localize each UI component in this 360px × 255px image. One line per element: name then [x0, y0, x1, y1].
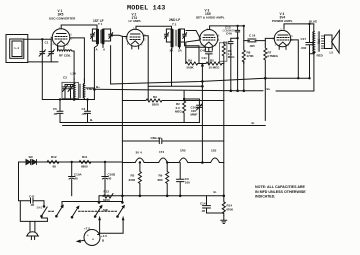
- svg-text:2A: 2A: [178, 49, 183, 53]
- svg-text:68: 68: [53, 165, 57, 169]
- T1 bottom pins: [102, 44, 104, 48]
- svg-text:MMF: MMF: [191, 113, 198, 117]
- svg-text:MEG: MEG: [175, 110, 183, 114]
- svg-text:7: 7: [67, 45, 69, 47]
- svg-text:C4A: C4A: [226, 32, 233, 36]
- switch pole SW1c: [71, 206, 79, 218]
- wire V2 grid return: [121, 37, 123, 196]
- svg-text:MODEL 143: MODEL 143: [127, 5, 166, 13]
- filament bus with humps: [122, 149, 223, 163]
- svg-text:DET & AUDIO AMPL: DET & AUDIO AMPL: [196, 16, 225, 20]
- svg-text:C4: C4: [82, 107, 86, 111]
- wire V3 cathode to pot left: [186, 46, 206, 48]
- svg-text:SR: SR: [29, 155, 34, 159]
- svg-text:+7.5: +7.5: [84, 226, 90, 230]
- svg-text:1R5: 1R5: [180, 149, 186, 153]
- svg-text:1: 1: [127, 44, 129, 46]
- svg-text:.05: .05: [201, 209, 206, 213]
- 2nd IF transformer T2: [165, 18, 187, 53]
- wire V3 plate top: [210, 25, 244, 27]
- top bus line: [111, 78, 310, 84]
- svg-text:R3: R3: [153, 95, 157, 99]
- svg-text:6: 6: [70, 35, 72, 37]
- V4 cathode wire right: [291, 40, 299, 78]
- svg-text:5: 5: [218, 40, 220, 42]
- switch pole SW1d: [94, 196, 102, 218]
- svg-text:RED: RED: [317, 54, 324, 58]
- svg-text:R13: R13: [104, 190, 110, 194]
- wire V1 osc grid: [73, 38, 84, 82]
- oscillator coil L3B: [83, 79, 93, 100]
- capacitor C15: [224, 38, 234, 91]
- trimmer cap C3: [63, 85, 75, 99]
- svg-text:.05: .05: [53, 112, 58, 116]
- svg-text:C 16: C 16: [249, 34, 256, 38]
- svg-text:C5: C5: [53, 107, 57, 111]
- svg-text:.05: .05: [82, 112, 87, 116]
- svg-text:100: 100: [185, 181, 190, 185]
- svg-text:40: 40: [75, 177, 79, 181]
- svg-text:OSC-CONVERTER: OSC-CONVERTER: [49, 16, 76, 20]
- volume pot R4 500K: [186, 59, 198, 70]
- svg-text:C-D: C-D: [29, 195, 35, 199]
- svg-text:1T4: 1T4: [159, 150, 165, 154]
- tube V2 1T4 IF ampl: [125, 12, 146, 49]
- wire T1 primary bottom to B+: [94, 44, 97, 100]
- cap C14 .05: [200, 196, 224, 213]
- output transformer T3: [313, 24, 325, 58]
- bus line 2: [148, 85, 202, 87]
- svg-text:+1.5: +1.5: [101, 234, 107, 238]
- battery B1: [77, 218, 124, 246]
- wiper wire down with arrow: [201, 66, 203, 163]
- mechanical link dashed: [49, 210, 56, 212]
- svg-text:C11: C11: [202, 56, 208, 60]
- wire V2 plate to T2: [136, 26, 172, 29]
- svg-text:IN MFD UNLESS OTHERWISE: IN MFD UNLESS OTHERWISE: [255, 190, 306, 194]
- wire detector node: [231, 38, 239, 91]
- svg-text:B-: B-: [252, 121, 255, 125]
- T1 trimmer left: [91, 29, 98, 41]
- svg-text:A: A: [103, 48, 106, 52]
- svg-text:T 2: T 2: [172, 23, 177, 27]
- tube V3 1S5 det audio: [196, 9, 225, 51]
- svg-text:INDICATED.: INDICATED.: [255, 195, 275, 199]
- svg-text:R5: R5: [131, 174, 135, 178]
- svg-text:SW1: SW1: [37, 205, 43, 209]
- wire plate node down: [243, 25, 244, 91]
- svg-text:C1: C1: [45, 41, 49, 45]
- line cord cap C-D .05: [19, 162, 45, 207]
- svg-text:L3A: L3A: [71, 71, 78, 75]
- svg-text:T 1: T 1: [98, 22, 103, 26]
- cap C16 coupling: [244, 34, 265, 48]
- svg-text:L5: L5: [330, 51, 334, 55]
- wire common bottom: [28, 61, 58, 63]
- svg-text:6800: 6800: [81, 165, 88, 169]
- svg-text:A: A: [96, 48, 99, 52]
- svg-text:5: 5: [144, 39, 146, 41]
- svg-text:L3B: L3B: [87, 87, 94, 91]
- note text: [255, 185, 306, 199]
- wire T2 to V3 grid: [186, 31, 201, 40]
- resistor R9 680: [158, 162, 169, 196]
- svg-text:6: 6: [218, 36, 220, 38]
- long vertical from pot right: [223, 64, 225, 196]
- svg-text:R9: R9: [159, 174, 163, 178]
- svg-text:R4: R4: [188, 59, 192, 63]
- resistor R13 6200: [103, 190, 113, 203]
- resistor R5 3300: [129, 162, 142, 196]
- switch pole SW1a: [37, 201, 48, 222]
- capacitor C9 100: [177, 163, 191, 196]
- wire loop to tuning cap: [24, 38, 51, 40]
- svg-text:.05: .05: [30, 203, 35, 207]
- switch pole SW1e: [117, 196, 125, 218]
- wire V4 plate to output transformer, BLUE: [284, 23, 314, 25]
- svg-text:B: B: [102, 239, 105, 243]
- V4 grid wire: [265, 38, 274, 44]
- svg-text:R11: R11: [82, 155, 88, 159]
- svg-text:10 MEG: 10 MEG: [209, 66, 221, 70]
- svg-text:PRI: PRI: [317, 39, 321, 44]
- resistor R7 4.7MEG: [264, 44, 279, 121]
- svg-text:I-F AMPL: I-F AMPL: [129, 19, 142, 23]
- svg-text:B+: B+: [267, 87, 271, 91]
- wire rf coil to osc coil: [72, 51, 74, 80]
- svg-text:BLUE: BLUE: [309, 20, 317, 24]
- T1 trimmer right: [103, 29, 113, 41]
- svg-text:500K: 500K: [187, 66, 195, 70]
- wire T2 sec bottom to AVC: [185, 42, 200, 64]
- resistor R8 470K: [242, 48, 254, 64]
- svg-text:2ND I-F: 2ND I-F: [169, 18, 180, 22]
- svg-text:R5: R5: [210, 59, 214, 63]
- svg-text:470K: 470K: [226, 208, 234, 212]
- wire L3B to B+ feed: [86, 87, 95, 89]
- svg-text:8200: 8200: [152, 103, 159, 107]
- wire T2 pri bottom to B+: [171, 49, 173, 87]
- svg-text:4.7MEG: 4.7MEG: [267, 54, 279, 58]
- cap C4: [82, 99, 94, 123]
- svg-text:C3: C3: [63, 75, 67, 79]
- resistor R11 6800: [79, 155, 91, 169]
- cap C13: [223, 25, 240, 38]
- R3 8200 screen feed: [122, 95, 224, 107]
- AC plug: [20, 201, 47, 240]
- cap C6B-40 on line: [122, 136, 223, 144]
- SR rectifier line: [19, 161, 123, 163]
- svg-text:680: 680: [158, 178, 163, 182]
- speaker L5: [325, 30, 340, 54]
- svg-text:5: 5: [70, 39, 72, 41]
- lower bus lines: [60, 122, 200, 124]
- wire T1 sec to V2 grid: [111, 35, 127, 36]
- svg-text:.005: .005: [249, 44, 255, 48]
- svg-text:C6B-40: C6B-40: [151, 136, 162, 140]
- svg-text:+: +: [87, 233, 89, 237]
- wire V2 screen down: [143, 36, 148, 101]
- common line osc: [42, 62, 94, 100]
- L3 core: [79, 84, 80, 98]
- RF coil under V1: [58, 45, 72, 58]
- resistor R12 68: [47, 155, 59, 169]
- svg-text:B+: B+: [96, 85, 100, 89]
- SR selenium rectifier: [26, 155, 37, 165]
- svg-text:B-: B-: [214, 190, 217, 194]
- oscillator coil L3A: [63, 71, 77, 99]
- svg-text:1: 1: [52, 44, 54, 46]
- T2 trimmer right: [179, 29, 186, 42]
- oscillator coil L3 shield box: [62, 82, 78, 98]
- svg-text:7: 7: [215, 46, 217, 48]
- bottom bus: [99, 195, 224, 197]
- cap C5: [53, 99, 63, 123]
- svg-text:MEG: MEG: [228, 55, 236, 59]
- capacitor C4B / C11 under V3: [200, 48, 212, 64]
- svg-text:B-: B-: [90, 118, 93, 122]
- 1st IF transformer T1: [91, 19, 113, 52]
- resistor R5 10 MEG: [206, 59, 222, 70]
- resistor R6 1.5 MEG: [219, 42, 235, 64]
- svg-text:POWER AMPL: POWER AMPL: [272, 19, 293, 23]
- svg-text:C17: C17: [301, 37, 307, 41]
- svg-text:7: 7: [141, 45, 143, 47]
- svg-text:7: 7: [288, 45, 290, 47]
- svg-text:.002: .002: [301, 46, 307, 50]
- svg-text:1S5: 1S5: [211, 149, 217, 153]
- svg-text:3300: 3300: [129, 178, 136, 182]
- tuning capacitor C2: [48, 39, 54, 62]
- wire pot line: [186, 40, 200, 64]
- B+ vertical from RED: [313, 53, 315, 92]
- switch pole SW1b: [56, 202, 123, 218]
- svg-text:6: 6: [291, 36, 293, 38]
- svg-text:NOTE: ALL CAPACITIES ARE: NOTE: ALL CAPACITIES ARE: [255, 185, 306, 189]
- tube V4 3V4 power ampl: [272, 12, 293, 50]
- loop antenna L1: [6, 35, 28, 63]
- svg-text:o: o: [92, 237, 94, 241]
- svg-text:L-1: L-1: [15, 46, 20, 50]
- cap C17 .002: [298, 24, 314, 79]
- tuning capacitor C1: [39, 39, 49, 62]
- svg-text:R12: R12: [51, 155, 57, 159]
- ground: [221, 216, 227, 224]
- trimmer cap C2A: [68, 85, 73, 99]
- cap C10B 40: [102, 161, 116, 196]
- svg-text:RF COIL: RF COIL: [59, 54, 71, 58]
- svg-text:1: 1: [275, 45, 277, 47]
- svg-text:C14: C14: [200, 202, 206, 206]
- R2 3.3 MEG: [175, 91, 186, 123]
- resistor R14 470K: [222, 196, 234, 216]
- wire V1 plate to T1: [61, 25, 97, 29]
- tube V1 1R5 osc-converter: [49, 9, 76, 49]
- svg-text:470K: 470K: [247, 54, 255, 58]
- T2 trimmer left: [165, 29, 173, 42]
- svg-text:C4B: C4B: [200, 49, 207, 53]
- svg-text:3V 4: 3V 4: [136, 151, 143, 155]
- svg-text:5: 5: [291, 40, 293, 42]
- trimmer C10A 100MMF: [184, 99, 202, 123]
- cap C10A 40: [69, 161, 83, 196]
- svg-text:SW: SW: [103, 208, 108, 212]
- svg-text:40: 40: [108, 177, 112, 181]
